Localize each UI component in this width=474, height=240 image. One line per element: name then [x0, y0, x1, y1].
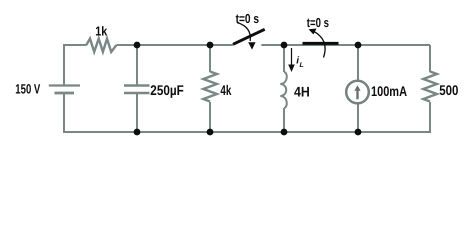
wire current source branch bottom: [357, 103, 359, 132]
svg-text:L: L: [300, 62, 304, 69]
svg-text:500: 500: [439, 82, 458, 98]
svg-text:1k: 1k: [95, 24, 108, 39]
wire top from left corner to 1k: [64, 45, 87, 85]
svg-text:100mA: 100mA: [371, 83, 407, 99]
wire current source branch top: [357, 45, 359, 81]
resistor R3 500 (vertical): [423, 72, 437, 102]
node A junction dot (1k / C1 top): [134, 42, 141, 49]
node D junction dot (current source top): [355, 42, 362, 49]
wire top from 1k to switch S1 left contact: [117, 44, 234, 46]
resistor R1 1k (horizontal): [86, 39, 116, 52]
wire 4k branch top: [209, 45, 211, 72]
junction dot 4k bottom: [207, 129, 214, 136]
switch S2 (closed blade, opens at t=0): [303, 42, 339, 45]
wire bottom rail: [64, 94, 430, 133]
junction dot current source bottom: [355, 129, 362, 136]
svg-text:t=0 s: t=0 s: [236, 11, 260, 26]
wire 4k branch bottom: [209, 102, 211, 132]
wire capacitor branch top: [136, 45, 138, 85]
wire right branch top (to 500): [429, 45, 431, 72]
svg-text:4H: 4H: [294, 83, 310, 99]
junction dot C1 bottom: [134, 129, 141, 136]
resistor R2 4k (vertical): [203, 72, 217, 102]
inductor L1 4H: [280, 72, 286, 108]
wire inductor branch top: [283, 45, 285, 72]
node C junction dot (inductor top): [281, 42, 288, 49]
junction dot inductor bottom: [281, 129, 288, 136]
current source I1 100mA: [346, 81, 369, 104]
wire top from S1 right contact through S2 to top-right corner: [261, 44, 430, 46]
svg-text:4k: 4k: [220, 82, 231, 98]
node B junction dot (4k top): [207, 42, 214, 49]
capacitor C1 250uF: [124, 86, 150, 94]
wire inductor branch bottom: [283, 108, 285, 132]
switch S2 action arrow: [314, 31, 326, 57]
current arrow iL: [291, 48, 293, 66]
svg-text:t=0 s: t=0 s: [307, 15, 329, 30]
switch S1 action arrow: [237, 23, 250, 42]
wire capacitor branch bottom: [136, 94, 138, 132]
battery V1 150 V: [49, 86, 80, 94]
switch S1 (opening blade, closes at t=0): [233, 29, 265, 44]
svg-text:150 V: 150 V: [15, 82, 40, 97]
svg-text:250µF: 250µF: [150, 82, 184, 98]
